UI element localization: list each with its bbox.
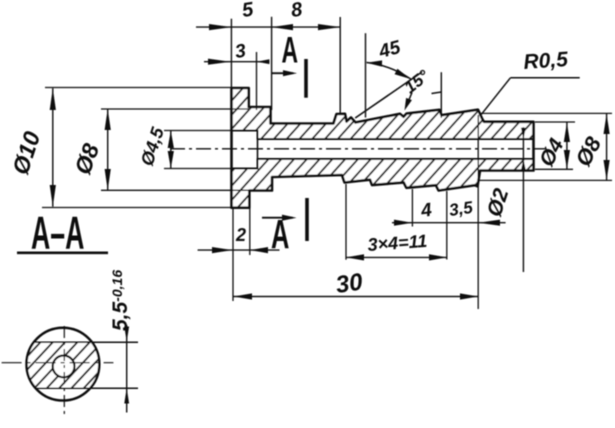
R0,5 shelf (510, 77, 579, 79)
part outer profile (232, 88, 534, 208)
label A-A (31, 207, 84, 258)
label A top (282, 29, 299, 71)
dim line 2 (198, 249, 280, 251)
dim line O2 (522, 127, 524, 272)
svg-text:А–А: А–А (31, 207, 84, 258)
dim 2 right ext (249, 193, 251, 255)
dim line 4 and 3,5 (392, 222, 506, 224)
section arrow top (272, 72, 293, 74)
dim 4 left arrow (394, 220, 412, 226)
O2 top tick (514, 138, 533, 140)
dim line 3x4=11 (346, 256, 447, 258)
dim O4 top ext (535, 121, 575, 123)
circle centerline v (63, 326, 65, 415)
chamfer slant line (355, 72, 422, 118)
dim O10 bottom ext (42, 207, 232, 209)
dim 5 left arrow (209, 24, 231, 30)
dim 3x4 left ext (345, 184, 347, 260)
svg-text:2: 2 (235, 225, 246, 245)
part body section (hatched) (232, 88, 534, 208)
15deg tick (432, 92, 442, 94)
dim 8 right arrow (318, 24, 340, 30)
section mark bar top (304, 59, 308, 98)
45deg ref line (365, 33, 367, 117)
dim O8 bottom ext (101, 189, 249, 191)
dim line O10 (52, 88, 54, 207)
dim 3 extension line (256, 52, 258, 110)
dim O4,5 ext top (164, 130, 232, 132)
dim 8 right ext line (339, 17, 341, 114)
svg-text:30: 30 (334, 268, 365, 299)
axis centerline (170, 148, 545, 150)
15deg leader arrow (406, 93, 412, 108)
label A bottom (271, 212, 289, 258)
bore and counterbore outline (232, 131, 534, 169)
dim 4 ext line (411, 189, 413, 227)
15deg ref line (440, 72, 442, 118)
counterbore bottom face (257, 131, 259, 169)
dim line 30 (234, 296, 479, 298)
label A-A underline (17, 252, 108, 255)
dim 5 right arrow (272, 24, 293, 30)
dim O8 right bottom ext (479, 179, 612, 181)
dim 2 left arrow (212, 247, 233, 253)
section plane line (271, 17, 273, 110)
svg-text:А: А (271, 212, 289, 258)
O2 bottom tick (514, 158, 533, 160)
dim line 3 (204, 61, 270, 63)
svg-text:А: А (282, 29, 299, 71)
dim 5 extension line (230, 19, 232, 88)
dim line 5-8 (196, 26, 340, 28)
dim 3 left arrow (208, 59, 231, 65)
dim O10 top ext (45, 87, 232, 89)
flat top chord + ext (34, 341, 138, 343)
flat bottom chord + ext (36, 387, 138, 389)
svg-text:3×4=11: 3×4=11 (367, 231, 428, 255)
section circle hatched (20, 342, 110, 388)
dim 3 right arrow (257, 59, 270, 64)
dim O4 bottom ext (535, 168, 573, 170)
dim O4,5 ext bottom (164, 168, 232, 170)
dim 3,5 right arrow (478, 220, 500, 226)
dim line O8 left (107, 109, 109, 190)
dim line 5,5 (126, 325, 128, 413)
circle centerline h (2, 362, 114, 364)
dim line O4 (566, 122, 568, 169)
45deg arc (367, 63, 412, 80)
dim line O8 right (606, 114, 608, 181)
dim 4-3,5 shared ext (446, 191, 448, 260)
ext line x478 (477, 115, 479, 309)
svg-text:3,5: 3,5 (448, 198, 475, 220)
dim O8 top ext (101, 108, 249, 110)
section circle outline (27, 328, 100, 401)
dim line O4,5 (170, 131, 172, 169)
dim 2 right arrow (250, 247, 268, 253)
R0,5 leader (481, 78, 510, 115)
section mark bar bottom (305, 198, 309, 241)
section circle bore (53, 356, 75, 378)
section arrow bottom (262, 217, 293, 219)
svg-text:R0,5: R0,5 (523, 48, 569, 74)
dim O8 right top ext (479, 112, 612, 114)
dim 30 left ext (232, 208, 234, 301)
